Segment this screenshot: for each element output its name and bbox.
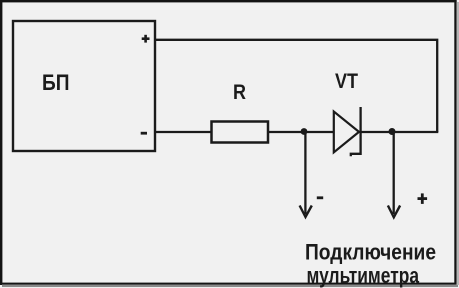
svg-text:VT: VT xyxy=(335,69,358,93)
label - terminal of БП xyxy=(141,132,147,135)
label + terminal of БП xyxy=(142,37,150,40)
diode VT (triangle and cathode bar with bottom hook) xyxy=(334,112,359,153)
wire node B to right corner xyxy=(392,131,438,133)
label - at left probe xyxy=(317,196,323,199)
wire node A to diode VT anode xyxy=(304,131,334,133)
node B junction dot xyxy=(389,128,396,135)
svg-text:Подключение: Подключение xyxy=(305,240,436,265)
svg-text:R: R xyxy=(233,80,246,104)
probe arrowhead plus xyxy=(388,206,400,218)
wire resistor to node A xyxy=(268,131,304,133)
wire + terminal to top-right corner xyxy=(155,40,437,132)
wire right probe drop from node B xyxy=(393,133,395,214)
wire diode VT cathode to node B xyxy=(361,131,392,133)
power supply БП box xyxy=(13,21,155,151)
label + at right probe xyxy=(418,197,428,200)
resistor R xyxy=(212,122,269,143)
svg-text:мультиметра: мультиметра xyxy=(307,263,420,288)
wire left probe drop from node A xyxy=(304,133,306,214)
probe arrowhead minus xyxy=(300,206,312,218)
svg-text:БП: БП xyxy=(42,70,70,95)
wire - terminal to resistor R xyxy=(155,131,211,133)
node A junction dot xyxy=(301,128,308,135)
